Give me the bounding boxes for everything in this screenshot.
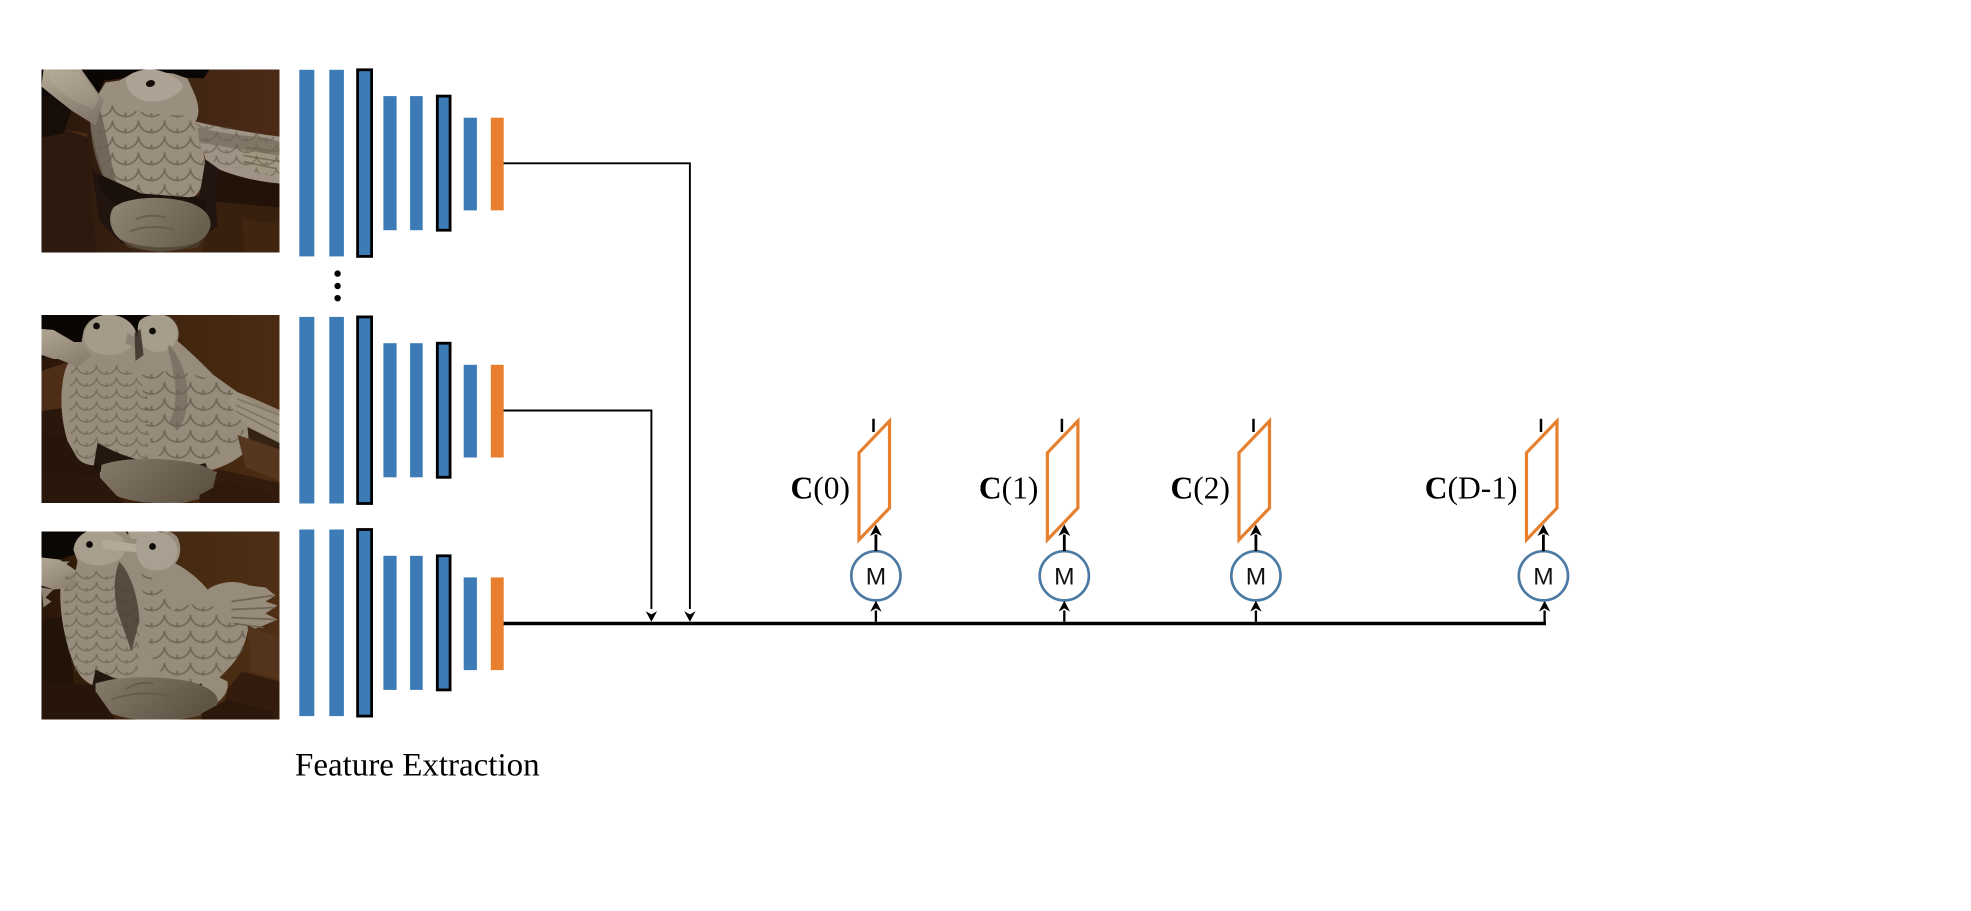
g1 conv bar 5: [410, 96, 423, 230]
g1 conv bar 3 outlined: [358, 70, 372, 257]
svg-text:C(D-1): C(D-1): [1425, 471, 1518, 506]
cost slice 3 parallelogram: [1239, 421, 1270, 540]
photo2 statue silhouette: [42, 314, 280, 503]
photo3 tail fan lines: [232, 596, 276, 628]
main bus line: [504, 622, 1546, 625]
photo3 shadow under bodies: [92, 670, 208, 716]
cost slice 1 parallelogram: [859, 421, 890, 540]
svg-text:C(2): C(2): [1171, 471, 1230, 506]
photo1 pedestal relief: [130, 216, 174, 232]
arrow M4 to slice: [1542, 535, 1545, 552]
photo2 bottom-left dark: [42, 407, 82, 503]
M units: [851, 525, 1568, 622]
photo2 right eye: [149, 328, 156, 335]
photo3 background: [42, 532, 280, 720]
svg-text:M: M: [1246, 564, 1266, 591]
g3 conv bar 6 outlined: [437, 556, 450, 690]
photo1 pedestal: [110, 198, 210, 252]
photo3 wing bright: [42, 558, 78, 590]
wire group1 feature to bus: [504, 163, 690, 609]
tick above slice 4: [1540, 419, 1543, 432]
photo1 head bright: [126, 69, 184, 101]
arrow bus to M1: [875, 611, 877, 622]
svg-text:C(1): C(1): [979, 471, 1038, 506]
g3 conv bar 7: [464, 577, 477, 670]
riser to M4: [1543, 611, 1545, 623]
g1 conv bar 4: [383, 96, 396, 230]
photo2 scallops right body: [142, 371, 248, 465]
photo1 low dark zone: [92, 160, 220, 248]
svg-text:M: M: [866, 564, 886, 591]
g2 conv bar 7: [464, 365, 477, 458]
photo1 black corner: [42, 70, 82, 104]
g3 conv bar 4: [383, 556, 396, 690]
g1 conv bar 1: [299, 70, 314, 257]
g2 conv bar 6 outlined: [437, 343, 450, 477]
photo1 tail ridges: [244, 148, 280, 169]
photo2 shadow under bodies: [94, 443, 214, 497]
photo3 foot relief: [112, 683, 168, 700]
photo2 background: [42, 315, 280, 503]
photo3 scallops left: [63, 571, 140, 684]
photo3 floor light swath: [248, 626, 280, 680]
g1 conv bar 2: [329, 70, 344, 257]
photo2 dark under pedestal left: [42, 473, 124, 503]
arrow M2 to slice: [1063, 535, 1066, 552]
photo 2 input image: [42, 314, 280, 503]
photo2 folded wing arc: [168, 345, 188, 431]
wire group2 feature to bus: [504, 411, 652, 610]
cost slice 2 parallelogram: [1047, 421, 1078, 540]
photo1 wing highlight: [48, 72, 100, 110]
photo2 bottom-right dark: [210, 469, 280, 503]
photo1 right floor lighter corner: [242, 220, 280, 253]
g3 conv bar 5: [410, 556, 423, 690]
photo3 right head: [136, 532, 178, 571]
photo1 background: [42, 70, 280, 253]
M unit 3 circle: [1231, 551, 1280, 600]
g2 conv bar 2: [329, 317, 344, 504]
svg-text:C(0): C(0): [791, 471, 850, 506]
photo2 crease between heads: [135, 329, 144, 361]
photo3 crease between birds: [115, 562, 140, 652]
svg-text:M: M: [1054, 564, 1074, 591]
arrowhead down g2: [646, 611, 657, 622]
photo 3 reference image: [42, 529, 280, 720]
g3 conv bar 2: [329, 530, 344, 717]
photo3 bottom-left dark: [42, 616, 78, 720]
vertical ellipsis dots: [334, 270, 340, 301]
feature extraction group 3: [299, 530, 503, 717]
g3 conv bar 3 outlined: [358, 530, 372, 717]
photo1 right floor: [202, 202, 280, 253]
photo1 neck shading: [90, 102, 117, 186]
photo1 pedestal bottom dark rim: [122, 240, 204, 253]
photo1 black top strip: [102, 70, 210, 81]
svg-text:Feature Extraction: Feature Extraction: [295, 748, 540, 784]
photo3 pedestal: [96, 677, 218, 720]
g2 conv bar 5: [410, 343, 423, 477]
cost slices: [791, 419, 1557, 540]
g1 conv bar 6 outlined: [437, 96, 450, 230]
g2 conv bar 1: [299, 317, 314, 504]
photo1 back ridge shading: [198, 128, 280, 156]
photo2 floor light patch: [42, 363, 78, 419]
arrow M1 to slice: [875, 535, 878, 552]
arrowhead down g1: [684, 611, 695, 622]
photo2 dark under pedestal right: [200, 481, 272, 503]
g1 feature bar orange: [491, 118, 504, 211]
photo1 left dark band: [42, 95, 72, 138]
g2 feature bar orange: [491, 365, 504, 458]
photo1 right body mass: [196, 122, 280, 184]
M unit 2 circle: [1040, 551, 1089, 600]
arrow M3 to slice: [1255, 535, 1258, 552]
photo3 left eye: [86, 541, 93, 548]
tick above slice 3: [1252, 419, 1255, 432]
g2 conv bar 4: [383, 343, 396, 477]
photo1 head hole: [145, 79, 156, 88]
photo1 floor bottom-left dark: [42, 130, 96, 253]
g3 conv bar 1: [299, 530, 314, 717]
arrow bus to M2: [1063, 611, 1065, 622]
g2 conv bar 3 outlined: [358, 317, 372, 504]
photo3 wing tips: [42, 588, 54, 608]
photo3 left edge dark: [42, 560, 56, 592]
photo2 tail streaks: [236, 399, 280, 433]
photo1 black notch: [76, 70, 110, 102]
photo1 floor light patch: [42, 126, 88, 168]
arrow bus to M3: [1255, 611, 1257, 622]
photo2 scallops left body: [69, 362, 150, 465]
feature extraction group 1: [299, 70, 503, 257]
photo1 central statue mass: [86, 72, 206, 214]
photo2 wing bright: [42, 329, 92, 367]
feature extraction group 2: [299, 317, 503, 504]
photo2 black backdrop: [42, 315, 158, 363]
photo1 scallops right: [198, 124, 280, 178]
photo3 scallops right: [142, 572, 246, 684]
photo3 left head: [74, 529, 126, 565]
photo3 dark under pedestal right: [202, 700, 274, 720]
photo2 left eye: [93, 323, 100, 330]
photo2 beak: [126, 333, 146, 349]
photo3 bottom-right dark: [222, 672, 280, 720]
photo2 tail bright: [230, 391, 280, 441]
photo2 under tail dark: [248, 427, 280, 463]
g3 feature bar orange: [491, 577, 504, 670]
photo3 right eye: [149, 543, 156, 550]
photo3 black top-left: [42, 532, 90, 566]
photo2 right head bright: [138, 315, 178, 352]
svg-text:M: M: [1533, 564, 1553, 591]
tick above slice 1: [872, 419, 875, 432]
photo3 dark under pedestal left: [42, 682, 116, 720]
photo2 pedestal: [100, 459, 222, 503]
photo1 under tail dark band: [212, 166, 280, 210]
photo3 beak: [102, 540, 140, 553]
photo 1 input image: [42, 69, 280, 252]
M unit 1 circle: [851, 551, 900, 600]
M unit 4 circle: [1519, 551, 1568, 600]
photo3 statue silhouette: [42, 529, 278, 716]
photo2 left head bright: [84, 315, 136, 355]
photo2 floor right swath: [238, 435, 280, 481]
tick above slice 2: [1061, 419, 1064, 432]
photo3 crest: [128, 532, 156, 540]
photo1 scallops center: [94, 100, 203, 212]
cost slice 4 parallelogram: [1527, 421, 1558, 540]
photo1 wing band: [42, 70, 104, 126]
g1 conv bar 7: [464, 118, 477, 211]
photo2 lower-left floor dark: [42, 435, 102, 503]
photo1 tail bright wedge: [242, 140, 280, 176]
photo1 deep shadow band: [98, 174, 208, 214]
